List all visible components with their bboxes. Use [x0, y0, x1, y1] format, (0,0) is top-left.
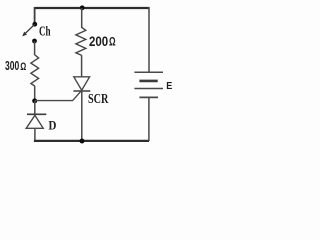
- wire gate node to diode: [34, 101, 36, 114]
- svg-text:SCR: SCR: [88, 91, 109, 106]
- battery E plate 4 short: [139, 96, 158, 98]
- resistor 300ohm zigzag: [31, 55, 39, 86]
- node switch top terminal: [32, 22, 37, 27]
- SCR triangle: [74, 77, 90, 90]
- wire diode to bottom wire: [34, 128, 36, 140]
- svg-text:D: D: [49, 119, 57, 133]
- resistor 200ohm zigzag: [76, 27, 86, 55]
- wire battery to bottom wire: [148, 97, 150, 141]
- wire resistor 300 to gate node: [34, 86, 36, 100]
- svg-text:300: 300: [5, 58, 19, 73]
- battery E plate 3 long: [134, 88, 163, 90]
- node top junction middle branch: [80, 5, 85, 10]
- wire right branch upper (top wire to battery): [148, 7, 150, 72]
- node bottom junction middle branch: [80, 139, 85, 144]
- battery E plate 1 long: [134, 71, 163, 73]
- svg-text:Ω: Ω: [20, 61, 26, 73]
- wire top horizontal: [35, 7, 149, 9]
- node gate junction: [32, 98, 37, 103]
- node switch bottom terminal: [32, 39, 37, 44]
- wire bottom horizontal: [34, 140, 149, 142]
- diode D triangle: [26, 115, 43, 128]
- wire SCR cathode to bottom: [81, 91, 83, 140]
- wire left branch upper (corner to switch): [34, 7, 36, 23]
- SCR gate lead: [35, 91, 81, 101]
- diode D cathode bar: [27, 113, 46, 115]
- svg-text:200: 200: [89, 34, 108, 50]
- svg-text:Ch: Ch: [39, 24, 51, 39]
- SCR cathode bar: [73, 90, 90, 92]
- svg-text:Ω: Ω: [109, 36, 116, 48]
- battery E plate 2 short thick: [139, 80, 157, 83]
- wire top to resistor 200: [81, 8, 83, 28]
- switch Ch blade with arrowhead: [22, 24, 35, 36]
- wire switch to resistor 300: [34, 41, 36, 55]
- svg-text:E: E: [166, 81, 172, 92]
- wire resistor 200 to SCR anode: [81, 55, 83, 77]
